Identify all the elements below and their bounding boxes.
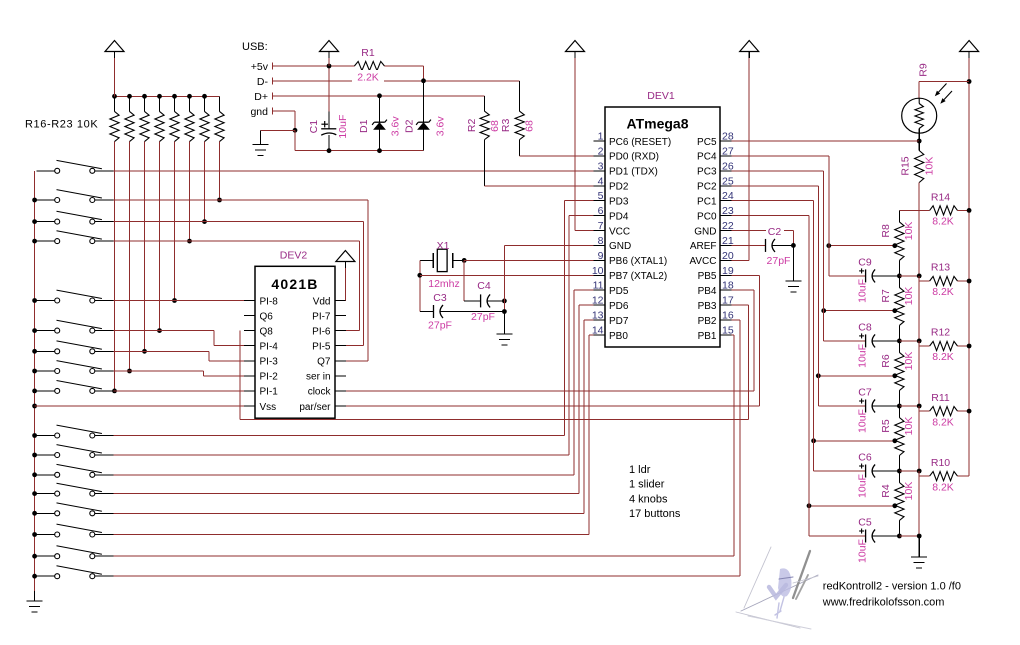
svg-text:PD7: PD7: [609, 316, 629, 327]
svg-text:10uF: 10uF: [337, 115, 349, 139]
svg-text:10: 10: [592, 265, 604, 277]
svg-text:R9: R9: [918, 63, 930, 77]
svg-text:C3: C3: [433, 292, 447, 304]
svg-text:3: 3: [598, 160, 604, 172]
svg-text:PI-8: PI-8: [260, 296, 279, 307]
svg-text:D+: D+: [254, 91, 268, 103]
svg-text:PD1 (TDX): PD1 (TDX): [609, 167, 658, 178]
svg-text:16: 16: [722, 310, 734, 322]
svg-text:clock: clock: [308, 387, 332, 398]
svg-text:17 buttons: 17 buttons: [629, 508, 681, 520]
svg-text:PB1: PB1: [698, 331, 717, 342]
svg-text:Q6: Q6: [260, 311, 274, 322]
svg-text:R6: R6: [880, 354, 892, 368]
svg-text:18: 18: [722, 280, 734, 292]
svg-text:PI-3: PI-3: [260, 357, 279, 368]
svg-text:X1: X1: [437, 240, 450, 252]
svg-text:D-: D-: [257, 76, 269, 88]
svg-text:C2: C2: [768, 226, 782, 238]
svg-text:gnd: gnd: [250, 106, 268, 118]
svg-text:10K: 10K: [924, 157, 936, 176]
svg-text:www.fredrikolofsson.com: www.fredrikolofsson.com: [822, 597, 945, 609]
svg-text:PD5: PD5: [609, 286, 629, 297]
svg-text:3.6v: 3.6v: [435, 116, 447, 137]
svg-text:PC5: PC5: [697, 137, 717, 148]
svg-text:ser in: ser in: [306, 372, 330, 383]
svg-text:C7: C7: [858, 387, 872, 399]
svg-text:PI-7: PI-7: [312, 311, 331, 322]
svg-text:9: 9: [598, 250, 604, 262]
svg-text:R8: R8: [880, 224, 892, 238]
svg-text:PB0: PB0: [609, 331, 628, 342]
svg-text:PB5: PB5: [698, 271, 717, 282]
svg-text:Vdd: Vdd: [313, 296, 331, 307]
svg-text:R3: R3: [500, 119, 512, 133]
svg-text:PB4: PB4: [698, 286, 717, 297]
svg-text:68: 68: [524, 120, 536, 132]
svg-text:10K: 10K: [903, 417, 915, 436]
svg-text:10uF: 10uF: [857, 344, 869, 368]
svg-text:R4: R4: [880, 484, 892, 498]
svg-text:PD3: PD3: [609, 196, 629, 207]
svg-text:PB2: PB2: [698, 316, 717, 327]
svg-text:PB7 (XTAL2): PB7 (XTAL2): [609, 271, 667, 282]
svg-text:Q8: Q8: [260, 326, 274, 337]
svg-text:D1: D1: [358, 119, 370, 133]
svg-text:10K: 10K: [903, 482, 915, 501]
svg-text:10uF: 10uF: [857, 539, 869, 563]
svg-text:R10: R10: [931, 457, 950, 469]
svg-text:PI-4: PI-4: [260, 342, 279, 353]
svg-text:4: 4: [598, 175, 604, 187]
svg-text:10uF: 10uF: [857, 474, 869, 498]
svg-text:8.2K: 8.2K: [932, 416, 954, 428]
svg-text:par/ser: par/ser: [299, 402, 331, 413]
svg-text:D2: D2: [404, 119, 416, 133]
svg-text:R11: R11: [931, 392, 950, 404]
svg-text:4021B: 4021B: [271, 276, 318, 292]
svg-text:PI-5: PI-5: [312, 342, 331, 353]
svg-text:PC4: PC4: [697, 152, 717, 163]
svg-text:DEV2: DEV2: [280, 250, 308, 262]
svg-text:C8: C8: [858, 322, 872, 334]
svg-text:19: 19: [722, 265, 734, 277]
svg-text:USB:: USB:: [242, 41, 268, 53]
svg-text:8.2K: 8.2K: [932, 351, 954, 363]
svg-text:12mhz: 12mhz: [428, 278, 460, 290]
svg-text:+5v: +5v: [251, 61, 269, 73]
svg-text:PD6: PD6: [609, 301, 629, 312]
svg-text:10K: 10K: [903, 287, 915, 306]
svg-text:10K: 10K: [903, 352, 915, 371]
svg-text:R5: R5: [880, 419, 892, 433]
svg-text:PB6 (XTAL1): PB6 (XTAL1): [609, 256, 667, 267]
svg-text:R12: R12: [931, 327, 950, 339]
svg-text:PD4: PD4: [609, 211, 629, 222]
svg-text:Q7: Q7: [317, 357, 331, 368]
svg-text:14: 14: [592, 324, 604, 336]
svg-text:10uF: 10uF: [857, 279, 869, 303]
svg-text:GND: GND: [609, 241, 631, 252]
svg-text:27pF: 27pF: [428, 320, 452, 332]
svg-text:8: 8: [598, 235, 604, 247]
svg-text:8.2K: 8.2K: [932, 216, 954, 228]
svg-text:10K: 10K: [903, 222, 915, 241]
svg-text:C4: C4: [477, 280, 491, 292]
svg-text:1 ldr: 1 ldr: [629, 464, 651, 476]
svg-text:AVCC: AVCC: [689, 256, 716, 267]
svg-text:R2: R2: [466, 119, 478, 133]
svg-text:AREF: AREF: [690, 241, 717, 252]
svg-text:C6: C6: [858, 452, 872, 464]
svg-text:R13: R13: [931, 262, 950, 274]
svg-text:5: 5: [598, 190, 604, 202]
svg-text:20: 20: [722, 250, 734, 262]
svg-text:27pF: 27pF: [471, 311, 495, 323]
svg-text:4 knobs: 4 knobs: [629, 493, 668, 505]
svg-text:6: 6: [598, 205, 604, 217]
svg-text:10uF: 10uF: [857, 409, 869, 433]
svg-text:C1: C1: [308, 120, 320, 134]
svg-text:8.2K: 8.2K: [932, 286, 954, 298]
svg-text:17: 17: [722, 295, 734, 307]
svg-text:12: 12: [592, 295, 604, 307]
svg-text:1 slider: 1 slider: [629, 479, 665, 491]
svg-text:Vss: Vss: [260, 402, 277, 413]
svg-text:3.6v: 3.6v: [390, 116, 402, 137]
svg-text:DEV1: DEV1: [647, 90, 675, 102]
svg-text:7: 7: [598, 220, 604, 232]
svg-text:R1: R1: [361, 47, 375, 59]
svg-text:redKontroll2 - version 1.0 /f0: redKontroll2 - version 1.0 /f0: [823, 581, 961, 593]
svg-text:PC3: PC3: [697, 167, 717, 178]
svg-text:PD2: PD2: [609, 182, 629, 193]
svg-text:C5: C5: [858, 517, 872, 529]
svg-text:15: 15: [722, 324, 734, 336]
svg-text:11: 11: [593, 280, 604, 292]
svg-text:PB3: PB3: [698, 301, 717, 312]
svg-text:ATmega8: ATmega8: [627, 115, 689, 131]
svg-text:PI-2: PI-2: [260, 372, 279, 383]
svg-text:27pF: 27pF: [767, 255, 791, 267]
svg-text:2.2K: 2.2K: [357, 72, 379, 84]
svg-text:21: 21: [722, 235, 734, 247]
svg-text:VCC: VCC: [609, 226, 630, 237]
svg-text:PC6 (RESET): PC6 (RESET): [609, 137, 671, 148]
svg-text:R16-R23 10K: R16-R23 10K: [25, 119, 98, 131]
svg-text:PI-6: PI-6: [312, 326, 331, 337]
svg-text:22: 22: [722, 220, 734, 232]
svg-text:PC2: PC2: [697, 182, 717, 193]
svg-text:PC0: PC0: [697, 211, 717, 222]
svg-text:R15: R15: [900, 156, 912, 175]
svg-text:C9: C9: [858, 257, 872, 269]
svg-text:PI-1: PI-1: [260, 387, 279, 398]
svg-text:13: 13: [592, 310, 604, 322]
svg-text:PD0 (RXD): PD0 (RXD): [609, 152, 659, 163]
svg-text:1: 1: [598, 131, 604, 143]
svg-text:R7: R7: [880, 289, 892, 303]
svg-text:8.2K: 8.2K: [932, 481, 954, 493]
svg-text:2: 2: [598, 145, 604, 157]
svg-text:R14: R14: [931, 192, 950, 204]
svg-text:PC1: PC1: [697, 196, 717, 207]
svg-text:GND: GND: [694, 226, 716, 237]
